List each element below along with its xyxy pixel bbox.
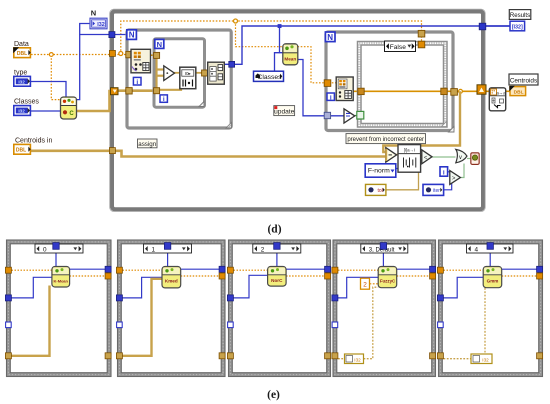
- wire: loop2 vertical feed and triangle stubs (tan): [157, 57, 182, 91]
- control Data terminal: [13, 47, 31, 57]
- svg-text:False: False: [390, 44, 406, 51]
- junction on Results wire: [278, 24, 282, 28]
- svg-text:a→a: a→a: [496, 90, 506, 95]
- wire: norm to less-than (orange): [421, 155, 422, 157]
- case frame 0 (K-Mean): [7, 240, 112, 377]
- svg-text:Mean: Mean: [284, 56, 296, 61]
- wire: centroids tan loop (frame 1): [123, 279, 163, 356]
- tunnels right edge (frame 3): [430, 266, 436, 359]
- constant iter: [423, 184, 444, 195]
- wire: OR to loop condition terminal (green): [467, 158, 471, 160]
- comparator less-than: [422, 150, 432, 164]
- svg-text:∨: ∨: [458, 155, 462, 161]
- case selector 3, Default: [361, 243, 408, 254]
- tunnel: loop2 left bottom: [154, 88, 160, 94]
- tunnel: centroid wire on loop3 right edge: [451, 89, 458, 96]
- tunnel: mean array on loop3 left edge: [324, 80, 331, 87]
- label update: [274, 106, 295, 116]
- svg-text:i: i: [163, 96, 165, 103]
- svg-text:K-Mean: K-Mean: [54, 278, 69, 283]
- wire: output dashed (frame 3): [397, 275, 431, 277]
- wire: selector drop (frame 2): [276, 249, 278, 266]
- wire: selector drop (frame 4): [489, 249, 491, 266]
- subVI K-Mean: [52, 267, 70, 288]
- wire: branch down to Mean and Classes local (blue): [275, 26, 283, 71]
- svg-text:<: <: [424, 155, 428, 161]
- svg-text:update: update: [274, 108, 295, 115]
- tunnel: N wire on while loop left edge: [109, 32, 115, 38]
- tunnels left edge (frame 4): [437, 267, 443, 359]
- wire: type to Init C (blue): [31, 82, 66, 99]
- svg-text:tol: tol: [378, 188, 383, 194]
- svg-text:Data: Data: [14, 41, 29, 48]
- subVI Init C: [61, 97, 77, 119]
- wire: init centroid constant up (frame 4): [485, 287, 492, 358]
- tunnel: loop2 right: [202, 70, 208, 76]
- svg-text:C: C: [69, 111, 74, 117]
- icon nearest index (loop2): [180, 67, 196, 89]
- wire: output dashed (frame 2): [286, 275, 325, 277]
- wire: F-norm to norm icon (blue): [396, 166, 400, 169]
- svg-text:I0▸: I0▸: [185, 71, 192, 76]
- wire: centroids tan loop (frame 0): [12, 286, 50, 356]
- subVI Mean: [283, 44, 298, 65]
- subtract node: [385, 148, 396, 163]
- junction ring on centroid wire: [459, 89, 463, 93]
- tunnels left edge (frame 2): [227, 267, 233, 359]
- icon norm: [398, 145, 421, 173]
- wire: output dashed (frame 0): [70, 275, 106, 277]
- tunnel: case selector terminal (green): [357, 111, 364, 119]
- svg-text:4: 4: [475, 246, 479, 253]
- svg-text:(e): (e): [267, 389, 280, 401]
- wire: Init C output to left shift register (tan thick): [77, 91, 113, 111]
- wire: blue input (frame 4): [444, 277, 484, 298]
- wire: fuzziness constant to subVI (frame 3): [370, 283, 379, 285]
- svg-text:I32: I32: [18, 79, 25, 84]
- wire: divide triangle to icon2 (tan): [174, 72, 180, 74]
- wire: blue input (frame 2): [234, 275, 268, 298]
- svg-text:[I32]: [I32]: [512, 24, 523, 30]
- case frame 4 (Gmm): [439, 240, 543, 377]
- tunnel: Results wire on while loop right edge: [479, 23, 486, 30]
- tunnel: loop2 left top: [154, 52, 160, 58]
- constant tol: [366, 184, 386, 195]
- tunnel: blue on loop3 left edge: [324, 112, 330, 118]
- svg-text:Classes: Classes: [14, 99, 39, 106]
- wire: output dashed (frame 1): [181, 275, 220, 277]
- wire: Results tunnel to terminal (blue): [483, 25, 510, 27]
- wire: blue output (frame 1): [181, 268, 220, 270]
- for loop 1 count terminal N: [127, 30, 137, 40]
- wire: input array dashed (frame 2): [234, 269, 268, 271]
- tunnels right edge (frame 0): [105, 266, 111, 359]
- wire: input array dashed (frame 4): [444, 269, 484, 271]
- wire: N control into loops (blue): [80, 24, 127, 35]
- tunnel: blue wire on loop1 right edge: [229, 61, 235, 67]
- tunnels right edge (frame 4): [537, 266, 543, 359]
- wire: comparator to case selector tunnel (green): [355, 115, 358, 117]
- for loop 1: [127, 30, 232, 128]
- wire: blue output (frame 3): [397, 268, 431, 270]
- svg-text:N: N: [129, 31, 135, 40]
- wire: Centroids in into loop (tan thick): [31, 151, 386, 157]
- svg-text:prevent from incorrect center: prevent from incorrect center: [347, 137, 424, 143]
- svg-text:NorC: NorC: [271, 278, 283, 283]
- constant I32 array (frame 3): [345, 354, 364, 364]
- while loop iteration terminal i: [440, 167, 448, 177]
- wire: blue output (frame 2): [286, 268, 325, 270]
- for loop 3: [326, 32, 454, 132]
- subVI FuzzyC: [378, 267, 397, 288]
- wire: Classes to Init C (blue): [31, 110, 61, 112]
- for loop 3 iteration terminal i: [327, 93, 334, 101]
- tunnels left edge (frame 1): [116, 267, 122, 359]
- svg-text:Gmm: Gmm: [487, 278, 499, 283]
- svg-text:0: 0: [43, 246, 47, 253]
- wire: iter constant to greater-than (blue): [444, 184, 452, 190]
- left shift register: [111, 88, 119, 95]
- svg-text:(d): (d): [267, 224, 281, 236]
- control N terminal: [90, 18, 107, 29]
- junction at top rail: [119, 52, 123, 56]
- tunnel: dashed rail on loop3 top edge: [418, 30, 425, 37]
- icon distance matrix (loop1): [131, 49, 151, 73]
- tunnel: centroid wire on case right edge: [441, 88, 447, 94]
- indicator Results label: [509, 10, 531, 20]
- wire: blue output (frame 4): [502, 268, 538, 270]
- svg-text:FuzzyC: FuzzyC: [380, 278, 396, 283]
- for loop 2 iteration terminal i: [160, 95, 167, 103]
- wire: input array dashed (frame 0): [12, 269, 52, 271]
- svg-text:I32: I32: [97, 22, 105, 28]
- svg-text:iter: iter: [433, 188, 440, 194]
- wire: N down to Init C (blue): [77, 35, 80, 100]
- subVI Kmed: [162, 267, 181, 288]
- svg-text:>: >: [452, 176, 456, 182]
- wire: input array dashed (frame 1): [123, 269, 163, 271]
- icon index means (loop3): [336, 77, 353, 101]
- svg-text:N: N: [327, 33, 333, 42]
- divide triangle (loop2): [164, 66, 175, 81]
- wire: icon4 to case and through to shift register (orange): [353, 90, 477, 92]
- svg-text:DBL: DBL: [17, 51, 27, 57]
- case selector 0: [35, 243, 83, 254]
- svg-text:i: i: [330, 94, 332, 101]
- wire: less-than to OR gate (green): [432, 156, 456, 158]
- case frame 1 (Kmed): [118, 240, 226, 377]
- case frame 3 (FuzzyC): [333, 240, 436, 377]
- case selector 2: [253, 243, 301, 254]
- svg-text:I32: I32: [354, 357, 361, 362]
- svg-text:N: N: [157, 40, 162, 49]
- wire: init centroid constant up (frame 3): [364, 287, 379, 359]
- svg-text:F-norm: F-norm: [368, 168, 390, 175]
- wire: blue input (frame 3): [338, 277, 378, 298]
- right shift register: [477, 85, 486, 94]
- svg-text:i: i: [443, 169, 445, 176]
- label prevent from incorrect center: [346, 134, 426, 144]
- svg-text:I32: I32: [482, 357, 489, 362]
- case selector 4: [467, 243, 514, 254]
- OR gate: [456, 149, 467, 162]
- wire: Data to Init C and top rail (orange dashed): [31, 21, 422, 100]
- junction on top rail at Mean branch: [234, 19, 238, 23]
- wire: shift register to conversion icon to Centroids (orange): [486, 90, 490, 92]
- for loop 3 count terminal N: [325, 32, 335, 42]
- constant 2 (fuzziness): [361, 278, 370, 289]
- tunnel: dashed rail on case top edge: [418, 41, 425, 48]
- svg-text:2: 2: [261, 246, 265, 253]
- icon convert 2D array (to Centroids): [489, 88, 506, 111]
- control Classes terminal: [14, 106, 31, 116]
- svg-text:Centroids in: Centroids in: [15, 138, 52, 145]
- svg-text:DBL: DBL: [514, 89, 524, 95]
- indicator Results terminal: [510, 21, 525, 31]
- tunnels left edge (frame 3): [332, 267, 338, 359]
- svg-text:i: i: [136, 79, 138, 86]
- wire: subtract to norm icon (tan): [397, 154, 399, 156]
- wire: greater-than to OR (green): [461, 164, 464, 178]
- svg-text:type: type: [14, 70, 27, 77]
- constant I32 array (frame 4): [471, 354, 492, 364]
- tunnel: centroids on loop1 left edge: [126, 88, 132, 94]
- svg-text:2: 2: [363, 282, 367, 289]
- loop condition terminal: [471, 153, 479, 165]
- label assign: [138, 139, 158, 148]
- control Centroids in terminal: [14, 144, 31, 154]
- for loop 1 iteration terminal i: [133, 77, 141, 85]
- wire: input array dashed (frame 3): [338, 269, 378, 271]
- junction on Data wire: [49, 53, 53, 57]
- comparator greater-than: [450, 171, 461, 185]
- wire: icon1 to loop2 tunnel (orange): [151, 54, 155, 56]
- case frame 2 (NorC): [229, 240, 331, 377]
- svg-text:DBL: DBL: [16, 148, 26, 154]
- case selector label "False": [385, 41, 416, 52]
- tunnel: Data wire on while loop left edge: [109, 50, 115, 56]
- wire: blue input (frame 1): [123, 277, 163, 298]
- svg-text:Classes: Classes: [257, 74, 282, 81]
- wire: i terminal to greater-than (blue): [448, 171, 450, 173]
- svg-text:1: 1: [152, 246, 156, 253]
- case structure: [358, 42, 448, 128]
- wire: new centroids down to subtract (tan): [383, 91, 460, 152]
- wire: selector drop (frame 1): [167, 249, 169, 266]
- wire: Mean output dashed orange to loop3: [298, 47, 337, 83]
- for loop 2: [154, 39, 205, 108]
- control type terminal: [14, 76, 31, 86]
- local variable Classes: [254, 71, 284, 81]
- wire: blue output (frame 0): [70, 268, 106, 270]
- indicator Centroids terminal: [509, 86, 525, 96]
- tunnel: Centroids in on while loop left edge: [109, 148, 115, 154]
- wire: blue input (frame 0): [12, 277, 52, 298]
- svg-text:I32: I32: [18, 109, 25, 114]
- wire: tol constant up into less-than (tan): [386, 162, 419, 190]
- wire: icon2 out through loop2 edge to icon3 (tan): [196, 72, 208, 74]
- icon build classes array (loop1): [208, 62, 225, 84]
- wire: Mean bottom output to comparator (blue): [298, 60, 344, 116]
- wire: shift register into loop1/loop2 (tan thick): [118, 89, 157, 92]
- svg-text:Kmed: Kmed: [165, 279, 178, 284]
- case selector 1: [144, 243, 192, 254]
- tunnel: centroid wire on case left edge: [358, 88, 364, 94]
- tunnel: Data on loop1 left edge: [126, 51, 132, 57]
- tunnels right edge (frame 1): [219, 266, 225, 359]
- svg-text:Results: Results: [510, 12, 530, 19]
- constant F-norm: [365, 164, 396, 177]
- comparator equal (loop3): [344, 109, 355, 123]
- indicator Centroids label: [509, 74, 538, 85]
- subVI NorC: [268, 267, 287, 287]
- wire: selector drop (frame 3): [382, 249, 384, 266]
- tunnels right edge (frame 2): [325, 266, 331, 359]
- svg-text:[I]a→I: [I]a→I: [404, 148, 415, 153]
- wire: icon3 up and right to Results (blue): [225, 26, 511, 64]
- tunnels left edge (frame 0): [5, 267, 11, 359]
- svg-text:assign: assign: [138, 141, 156, 148]
- wire: selector drop (frame 0): [55, 249, 57, 266]
- svg-text:N: N: [91, 9, 96, 18]
- wire: output dashed (frame 4): [502, 275, 538, 277]
- while loop (outer): [110, 9, 486, 211]
- svg-text:Centroids: Centroids: [510, 77, 537, 84]
- for loop 2 count terminal N: [155, 39, 164, 48]
- subVI Gmm: [483, 267, 502, 288]
